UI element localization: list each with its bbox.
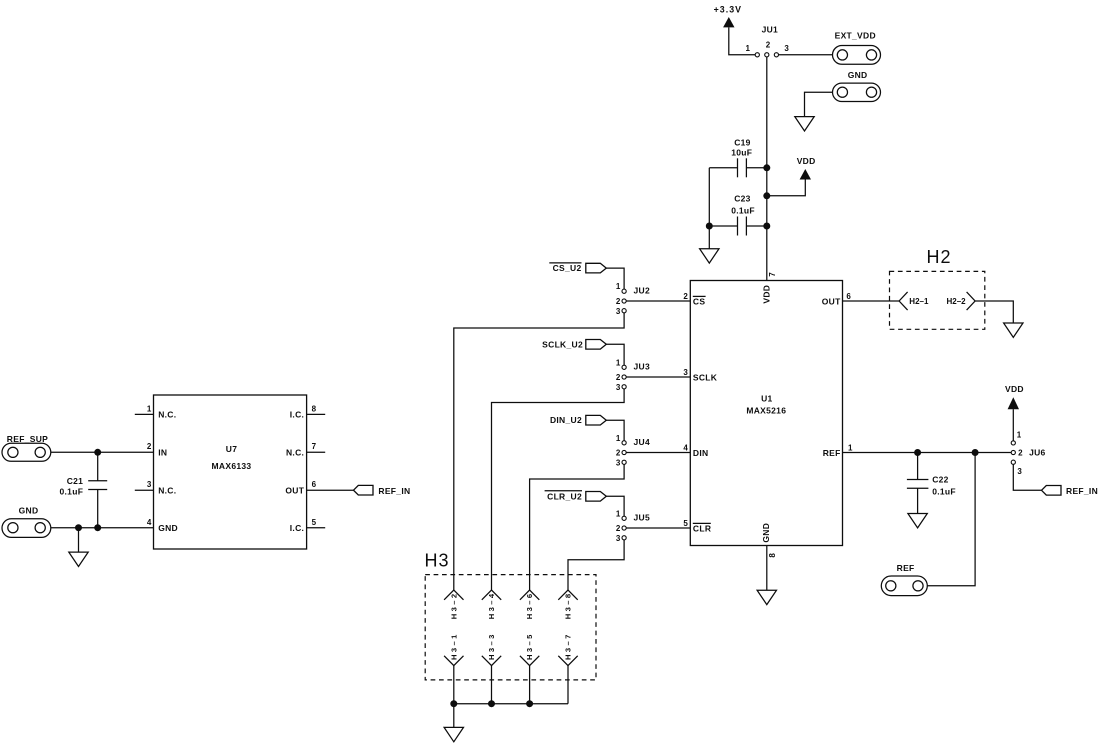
wire U7 pin 3 stub [135,489,154,491]
svg-text:1: 1 [848,444,853,453]
wire U7 OUT pin 6 to REF_IN [307,489,354,491]
svg-text:REF_IN: REF_IN [378,486,410,496]
svg-text:H2–1: H2–1 [909,297,929,306]
ground (U1) [757,590,776,604]
svg-text:REF_IN: REF_IN [1066,486,1098,496]
connector REF [881,563,927,595]
svg-text:JU6: JU6 [1029,448,1046,458]
svg-text:C21: C21 [67,476,84,486]
svg-text:4: 4 [683,444,688,453]
node REF / C22 [914,449,921,456]
wire GND branch to ground [78,528,80,552]
ground (C19/C23) [700,249,719,263]
svg-text:6: 6 [846,292,851,301]
svg-text:U1: U1 [761,393,772,403]
svg-text:MAX5216: MAX5216 [746,405,786,415]
svg-text:REF: REF [823,448,841,458]
svg-text:2: 2 [616,449,621,458]
wire JU4 pin 2 to U1 DIN [626,452,690,454]
wire JU4 pin 3 to H3-6 column [530,464,625,590]
net flag REF_IN (U7) [354,485,411,495]
net flag CLR_U2 [545,491,607,502]
svg-text:IN: IN [158,448,167,458]
jumper JU3 [616,358,650,392]
pin H2-2 [947,292,976,310]
wire C19/C23 left leg [708,168,710,249]
svg-text:JU5: JU5 [634,513,651,523]
node REF pad branch [972,449,979,456]
svg-text:H3–7: H3–7 [564,632,573,660]
wire JU1 pin 3 to EXT_VDD [779,54,833,56]
pin H3-4 [482,590,501,619]
svg-text:1: 1 [616,509,621,518]
svg-text:2: 2 [616,524,621,533]
IC U1 MAX5216 [683,272,853,558]
pin H3-8 [558,590,577,619]
svg-text:3: 3 [147,480,152,489]
connector EXT_VDD [833,30,881,64]
pin H3-1 [444,632,463,703]
wire JU5 pin 2 to U1 CLR [626,527,690,529]
net flag SCLK_U2 [542,339,606,349]
svg-text:JU2: JU2 [634,285,651,295]
power +3.3V [714,4,742,27]
svg-text:GND: GND [158,523,178,533]
svg-text:3: 3 [683,368,688,377]
svg-text:H3–5: H3–5 [525,632,534,660]
svg-text:I.C.: I.C. [290,523,304,533]
svg-text:N.C.: N.C. [286,448,304,458]
svg-text:CLR: CLR [693,523,711,533]
wire JU6 pin 3 to REF_IN [1013,464,1041,490]
ground (GND pad) [795,117,814,131]
capacitor C22 [907,453,956,514]
wire VDD arrow to rail [767,180,806,196]
wire JU3 pin 2 to U1 SCLK [626,376,690,378]
svg-text:JU3: JU3 [634,362,651,372]
wire GND pad to ground [805,92,833,116]
svg-text:8: 8 [312,405,317,414]
svg-text:JU1: JU1 [762,24,779,34]
net flag DIN_U2 [550,415,606,425]
capacitor C19 [709,137,767,177]
svg-text:GND: GND [848,70,868,80]
svg-text:SCLK: SCLK [693,372,718,382]
jumper JU4 [616,434,650,468]
node C23 left [706,223,713,230]
svg-text:GND: GND [761,523,771,543]
svg-text:REF_SUP: REF_SUP [7,434,48,444]
svg-text:1: 1 [616,282,621,291]
wire +3.3V to JU1 pin 1 [729,27,755,54]
IC U7 MAX6133 [147,395,317,549]
svg-text:4: 4 [147,518,152,527]
svg-text:C22: C22 [932,474,949,484]
svg-text:JU4: JU4 [634,437,651,447]
svg-text:8: 8 [768,553,777,558]
svg-text:3: 3 [616,383,621,392]
wire U7 pin 1 stub [135,413,154,415]
svg-text:2: 2 [616,373,621,382]
svg-text:H3–4: H3–4 [487,591,496,619]
capacitor C21 [59,452,107,527]
svg-text:H2: H2 [927,247,952,267]
capacitor C23 [709,194,767,236]
svg-text:3: 3 [616,307,621,316]
pin H3-7 [558,632,577,703]
wire H3 ground bus [454,703,568,705]
svg-text:C23: C23 [734,194,751,204]
svg-text:H3–6: H3–6 [525,591,534,619]
svg-text:2: 2 [1018,449,1023,458]
svg-text:N.C.: N.C. [158,485,176,495]
wire DIN_U2 to JU4 pin 1 [606,420,624,441]
pin H3-2 [444,590,463,619]
svg-text:3: 3 [616,534,621,543]
svg-text:H2–2: H2–2 [947,297,967,306]
wire H2-2 to ground [975,301,1013,323]
svg-text:7: 7 [312,442,317,451]
svg-text:0.1uF: 0.1uF [731,206,755,216]
net flag CS_U2 [549,263,606,273]
connector GND (top right) [833,70,881,101]
wire U7 pin 8 stub [307,413,326,415]
svg-text:3: 3 [784,44,789,53]
svg-text:CLR_U2: CLR_U2 [547,492,582,502]
svg-text:OUT: OUT [285,485,304,495]
pin H2-1 [899,292,929,310]
svg-text:5: 5 [312,518,317,527]
wire CS_U2 to JU2 pin 1 [606,268,624,289]
svg-text:3: 3 [616,459,621,468]
node VDD tap [763,192,770,199]
wire JU1 pin 2 down rail [766,57,768,281]
wire bus to ground [453,704,455,728]
wire JU2 pin 3 to H3-2 column [454,313,624,590]
wire SCLK_U2 to JU3 pin 1 [606,344,624,365]
svg-text:1: 1 [616,434,621,443]
svg-text:C19: C19 [734,137,751,147]
ground (C22) [908,514,927,528]
wire U1 GND pin 8 [766,546,768,591]
svg-text:VDD: VDD [797,156,816,166]
svg-text:0.1uF: 0.1uF [932,486,956,496]
svg-text:+3.3V: +3.3V [714,4,742,14]
svg-text:CS_U2: CS_U2 [553,263,582,273]
node C19 right [763,164,770,171]
wire GND pad to U7 GND pin 4 [51,527,154,529]
connector GND (left) [2,506,51,538]
power VDD (near C23) [797,156,816,180]
svg-text:VDD: VDD [1005,384,1024,394]
jumper JU2 [616,282,650,316]
node H3-5 bus [526,700,533,707]
jumper JU6 [1011,430,1045,476]
jumper JU5 [616,509,650,543]
pin H3-5 [520,632,539,703]
node C21 bottom [94,524,101,531]
node H3-3 bus [488,700,495,707]
wire REF pad to REF node [927,453,975,586]
svg-text:VDD: VDD [761,285,771,304]
svg-text:1: 1 [1017,430,1022,439]
wire U7 pin 5 stub [307,527,326,529]
svg-text:H3–2: H3–2 [449,591,458,619]
ground (H2) [1004,323,1023,337]
svg-text:H3–3: H3–3 [487,632,496,660]
node H3-1 bus [450,700,457,707]
svg-text:I.C.: I.C. [290,410,304,420]
node C21 top [94,449,101,456]
svg-text:10uF: 10uF [731,147,752,157]
svg-text:DIN: DIN [693,448,709,458]
wire JU3 pin 3 to H3-4 column [492,389,625,590]
wire U7 pin 7 stub [307,451,326,453]
node C23 right [763,223,770,230]
svg-text:H3: H3 [425,550,450,570]
svg-text:U7: U7 [226,444,237,454]
svg-text:DIN_U2: DIN_U2 [550,415,582,425]
wire U1 REF pin 1 to JU6 pin 2 [843,452,1012,454]
svg-text:MAX6133: MAX6133 [212,461,252,471]
net flag REF_IN (JU6) [1042,486,1099,496]
svg-text:REF: REF [897,563,915,573]
wire JU2 pin 2 to U1 CS [626,300,690,302]
svg-text:2: 2 [683,292,688,301]
power VDD (JU6) [1005,384,1024,409]
node GND branch [75,524,82,531]
wire VDD to JU6 pin 1 [1012,409,1014,441]
svg-text:2: 2 [147,442,152,451]
ground (H3) [444,727,463,741]
svg-text:6: 6 [312,480,317,489]
jumper JU1 [746,24,790,57]
svg-text:CS: CS [693,296,705,306]
svg-text:H3–8: H3–8 [564,591,573,619]
svg-text:3: 3 [1017,467,1022,476]
svg-text:N.C.: N.C. [158,410,176,420]
svg-text:GND: GND [19,506,39,516]
svg-text:1: 1 [746,44,751,53]
svg-text:0.1uF: 0.1uF [59,487,83,497]
connector REF_SUP [2,434,51,462]
svg-text:5: 5 [683,519,688,528]
pin H3-3 [482,632,501,703]
pin H3-6 [520,590,539,619]
svg-text:H3–1: H3–1 [449,632,458,660]
wire U1 OUT pin 6 to H2-1 [843,300,900,302]
svg-text:2: 2 [616,297,621,306]
svg-text:SCLK_U2: SCLK_U2 [542,339,583,349]
svg-text:OUT: OUT [822,296,841,306]
svg-text:1: 1 [616,358,621,367]
wire JU5 pin 3 to H3-8 column [568,540,624,590]
svg-text:1: 1 [147,405,152,414]
svg-text:EXT_VDD: EXT_VDD [835,30,876,40]
wire CLR_U2 to JU5 pin 1 [606,496,624,516]
wire REF_SUP to U7 IN pin 2 [51,451,154,453]
header H3 [425,550,597,680]
ground (U7) [69,552,88,566]
svg-text:7: 7 [768,272,777,277]
header H2 [890,247,985,329]
svg-text:2: 2 [766,41,771,50]
